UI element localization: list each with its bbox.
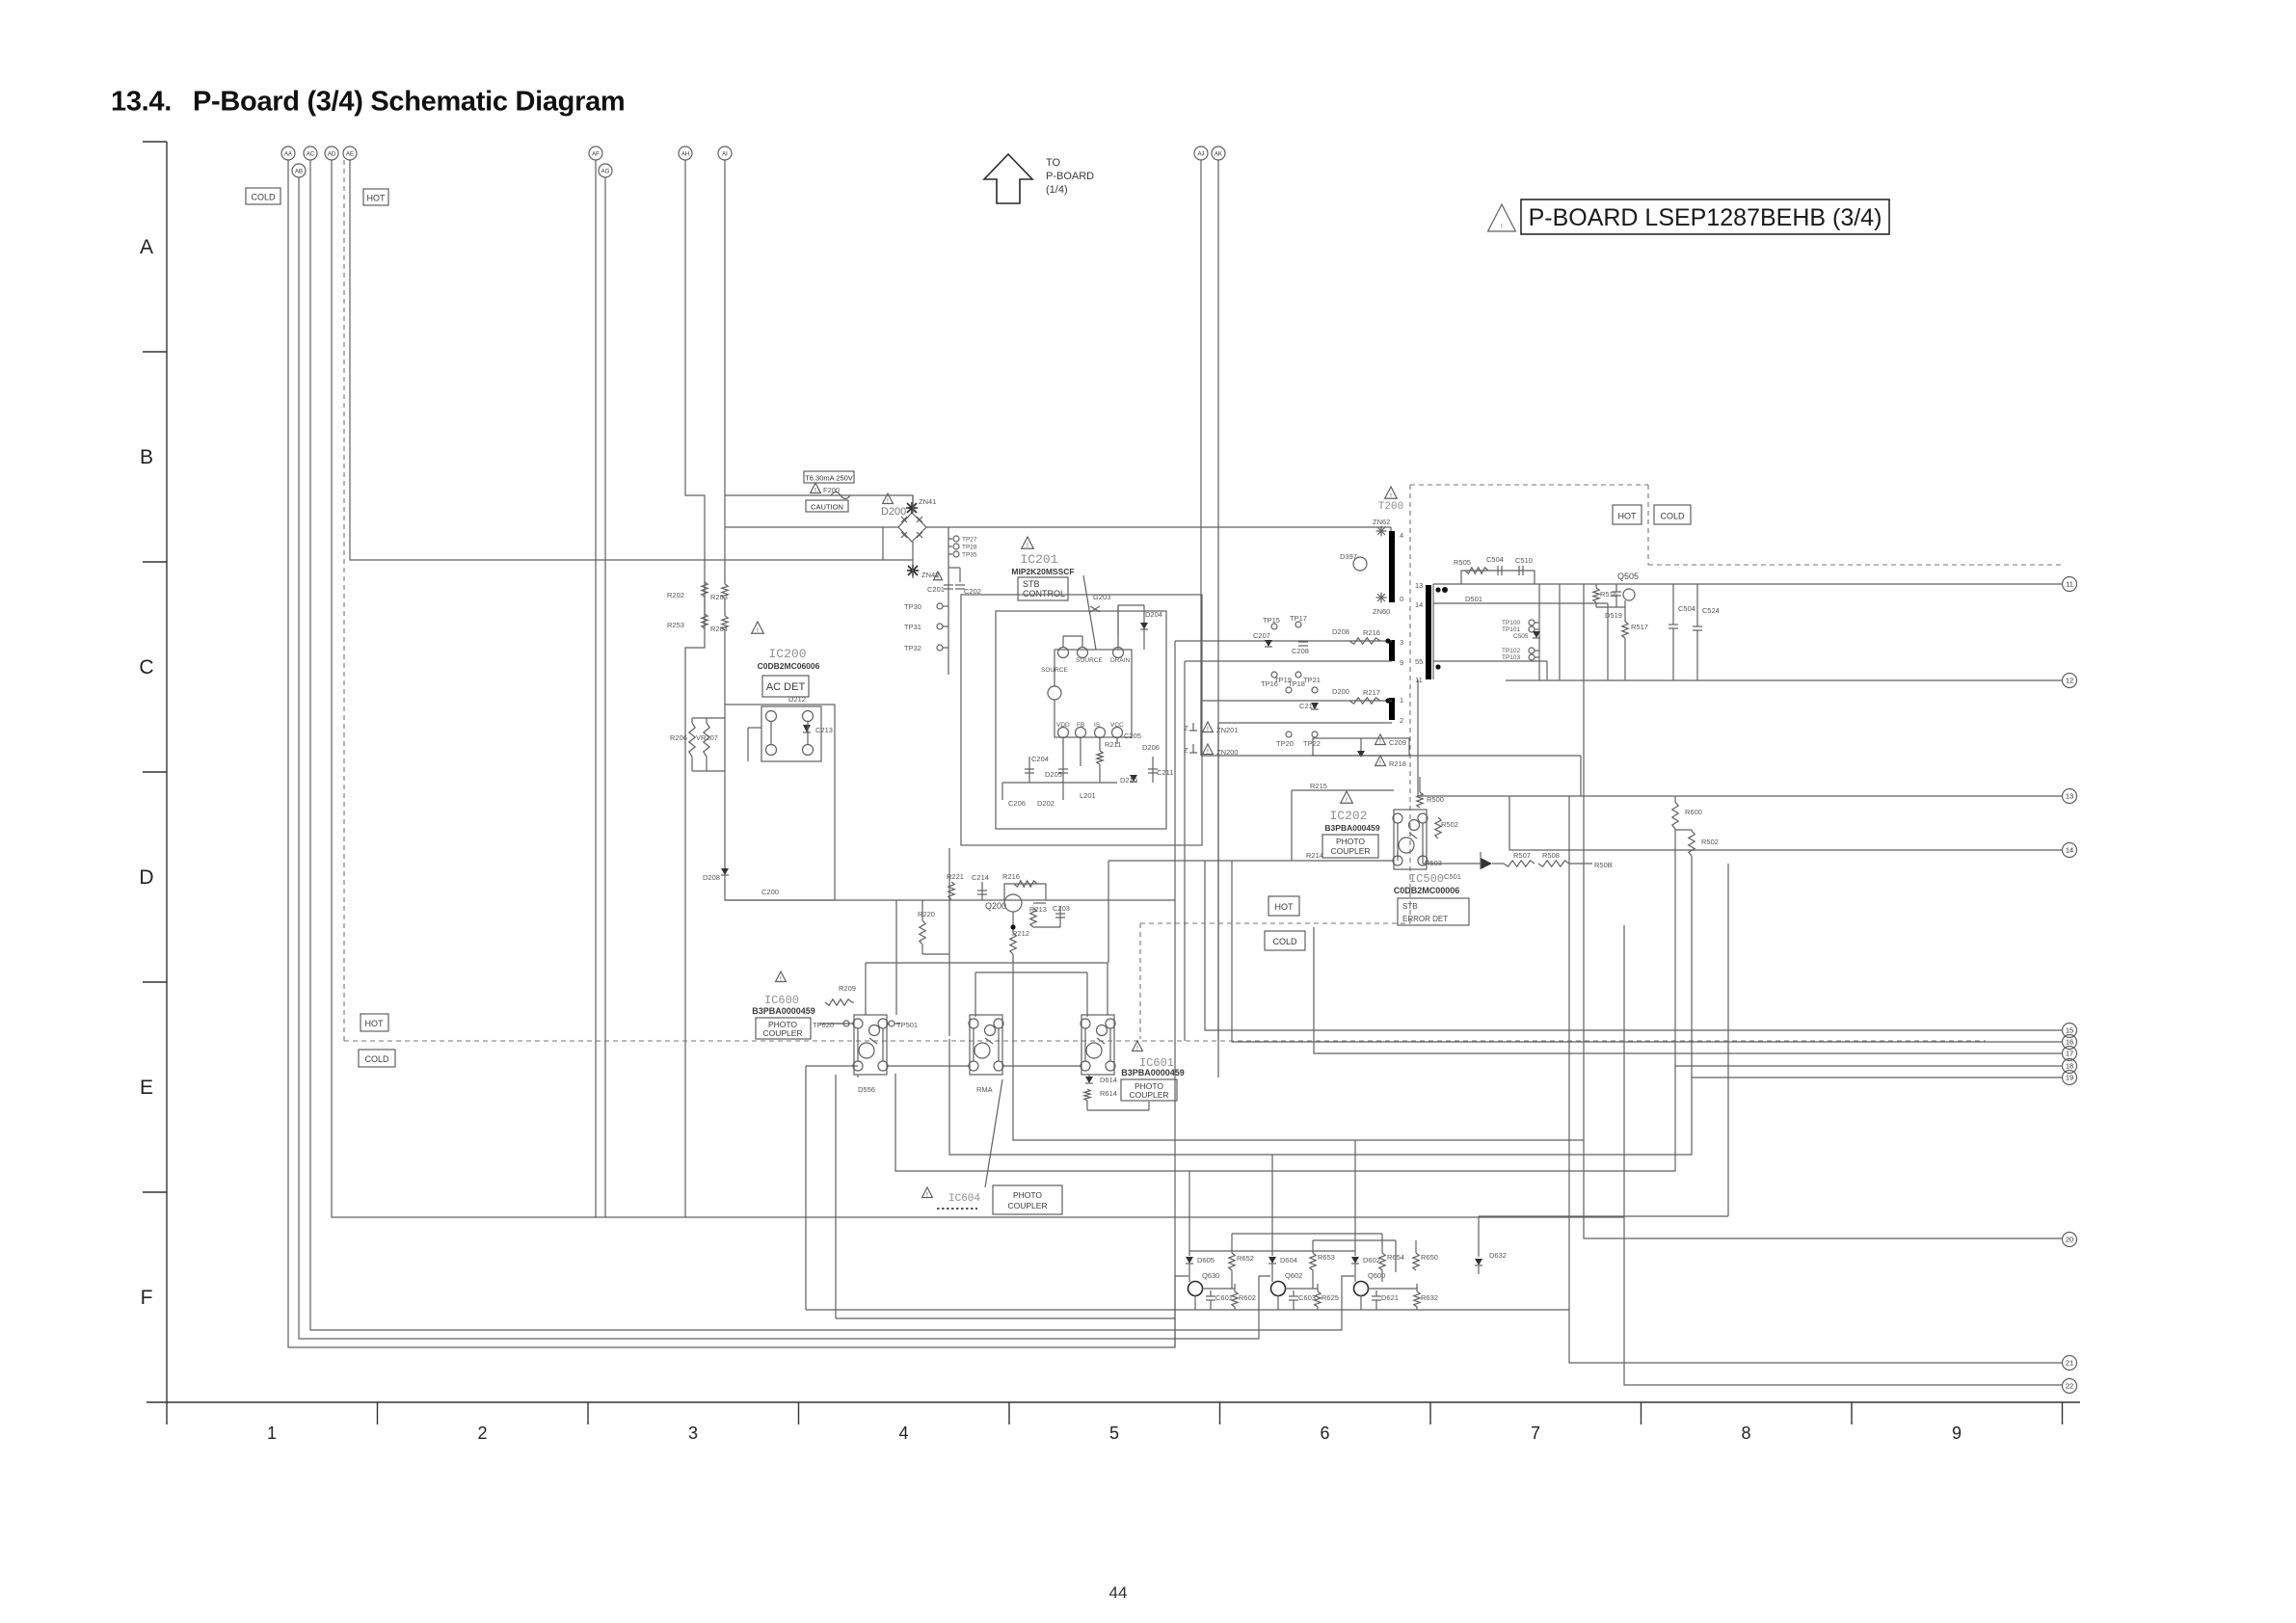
svg-text:HOT: HOT <box>367 194 387 203</box>
svg-text:IC200: IC200 <box>768 647 806 661</box>
svg-text:T6.30mA 250V: T6.30mA 250V <box>805 474 853 483</box>
svg-text:R50B: R50B <box>1594 861 1613 869</box>
svg-text:HOT: HOT <box>1275 902 1295 912</box>
svg-text:9: 9 <box>1952 1423 1962 1443</box>
svg-text:COUPLER: COUPLER <box>1007 1201 1047 1211</box>
svg-text:TP15: TP15 <box>1263 616 1280 625</box>
svg-text:TP31: TP31 <box>904 623 921 631</box>
svg-text:D202: D202 <box>1037 799 1055 808</box>
svg-text:AJ: AJ <box>1197 151 1204 157</box>
svg-text:TP620: TP620 <box>813 1021 834 1029</box>
svg-text:R220: R220 <box>918 910 935 918</box>
svg-text:HOT: HOT <box>1618 512 1638 521</box>
svg-text:C207: C207 <box>1253 631 1270 640</box>
svg-text:B: B <box>140 446 153 468</box>
svg-text:R625: R625 <box>1322 1293 1339 1302</box>
svg-text:55: 55 <box>1415 657 1423 666</box>
svg-text:17: 17 <box>2066 1050 2073 1058</box>
svg-text:TP17: TP17 <box>1290 614 1307 623</box>
svg-text:6: 6 <box>1320 1423 1329 1443</box>
svg-text:TP28: TP28 <box>962 545 977 551</box>
svg-text:AB: AB <box>295 169 303 174</box>
svg-text:C205: C205 <box>1124 732 1141 740</box>
svg-text:C214: C214 <box>972 873 989 882</box>
svg-text:(1/4): (1/4) <box>1046 184 1068 196</box>
svg-text:2: 2 <box>477 1423 487 1443</box>
svg-text:TP19: TP19 <box>1274 676 1292 684</box>
svg-text:E: E <box>140 1077 153 1099</box>
svg-text:HOT: HOT <box>365 1019 385 1028</box>
svg-text:R214: R214 <box>1306 851 1323 860</box>
svg-text:R502: R502 <box>1441 820 1458 829</box>
svg-text:P-BOARD LSEP1287BEHB (3/4): P-BOARD LSEP1287BEHB (3/4) <box>1529 204 1882 231</box>
svg-text:3: 3 <box>688 1423 698 1443</box>
svg-text:R502: R502 <box>1701 838 1719 846</box>
svg-text:IC604: IC604 <box>948 1193 980 1205</box>
svg-text:R516: R516 <box>1600 590 1617 599</box>
svg-text:STB: STB <box>1023 579 1040 589</box>
svg-text:C601: C601 <box>1215 1293 1233 1302</box>
svg-text:13: 13 <box>2066 792 2073 801</box>
svg-text:AC: AC <box>307 151 315 157</box>
svg-text:ZN41: ZN41 <box>919 497 936 506</box>
svg-text:VDD: VDD <box>1056 722 1070 729</box>
svg-text:44: 44 <box>1109 1583 1128 1602</box>
svg-text:R216: R216 <box>1002 872 1020 881</box>
svg-text:Q505: Q505 <box>1617 572 1639 581</box>
svg-text:B3PBA0000459: B3PBA0000459 <box>752 1006 815 1016</box>
svg-text:11: 11 <box>1415 676 1423 684</box>
svg-text:STB: STB <box>1402 902 1418 911</box>
svg-text:D621: D621 <box>1381 1293 1399 1302</box>
svg-text:R517: R517 <box>1631 623 1648 631</box>
svg-text:3: 3 <box>1400 638 1403 647</box>
svg-text:TP102: TP102 <box>1502 648 1521 654</box>
svg-text:R653: R653 <box>1318 1253 1335 1262</box>
svg-text:Q602: Q602 <box>1285 1271 1302 1280</box>
svg-text:R632: R632 <box>1421 1293 1438 1302</box>
svg-text:R614: R614 <box>1100 1089 1117 1098</box>
svg-text:D: D <box>139 866 153 889</box>
svg-text:14: 14 <box>1415 600 1423 609</box>
svg-text:R650: R650 <box>1421 1253 1438 1262</box>
svg-text:1: 1 <box>267 1423 277 1443</box>
svg-text:9: 9 <box>1400 658 1403 667</box>
svg-text:VR207: VR207 <box>696 733 718 742</box>
svg-text:R211: R211 <box>1105 740 1121 749</box>
svg-text:R500: R500 <box>1427 795 1444 804</box>
svg-text:C0DB2MC00006: C0DB2MC00006 <box>1394 886 1460 895</box>
svg-text:D200: D200 <box>1332 687 1349 696</box>
svg-text:TP103: TP103 <box>1502 654 1521 661</box>
svg-text:R253: R253 <box>667 621 684 629</box>
svg-text:13.4.: 13.4. <box>111 87 172 118</box>
svg-text:20: 20 <box>2066 1236 2073 1244</box>
svg-text:C211: C211 <box>1157 768 1173 777</box>
svg-text:COLD: COLD <box>1272 937 1297 946</box>
svg-text:TP30: TP30 <box>904 602 921 611</box>
svg-text:F200: F200 <box>823 486 840 494</box>
svg-text:C213: C213 <box>815 726 833 734</box>
svg-text:C524: C524 <box>1702 606 1720 615</box>
svg-text:VCC: VCC <box>1110 722 1124 729</box>
svg-text:R602: R602 <box>1239 1293 1256 1302</box>
svg-text:R209: R209 <box>839 984 856 993</box>
svg-text:D208: D208 <box>703 873 720 882</box>
svg-text:IC600: IC600 <box>764 994 799 1007</box>
svg-text:MIP2K20MSSCF: MIP2K20MSSCF <box>1011 567 1074 576</box>
svg-text:T200: T200 <box>1378 501 1403 513</box>
svg-text:16: 16 <box>2066 1038 2073 1047</box>
svg-text:COUPLER: COUPLER <box>1330 846 1370 856</box>
svg-text:2: 2 <box>1400 716 1403 725</box>
svg-text:TP35: TP35 <box>962 552 977 559</box>
svg-text:D604: D604 <box>1280 1256 1297 1264</box>
svg-text:IC202: IC202 <box>1329 809 1367 823</box>
svg-text:ZN60: ZN60 <box>1373 607 1390 616</box>
svg-text:R600: R600 <box>1685 808 1702 816</box>
svg-text:D397: D397 <box>1340 552 1357 561</box>
svg-text:D602: D602 <box>1363 1256 1380 1264</box>
svg-text:COLD: COLD <box>1660 512 1685 521</box>
svg-text:R505: R505 <box>1454 558 1471 567</box>
svg-text:D205: D205 <box>1045 770 1062 779</box>
svg-text:AK: AK <box>1215 151 1222 157</box>
svg-text:R218: R218 <box>1389 759 1406 768</box>
svg-text:14: 14 <box>2066 846 2073 855</box>
svg-text:C209: C209 <box>1389 738 1406 747</box>
svg-text:C203: C203 <box>1053 904 1070 913</box>
svg-text:TO: TO <box>1046 157 1061 169</box>
svg-text:4: 4 <box>898 1423 908 1443</box>
svg-text:C510: C510 <box>1515 556 1533 565</box>
svg-text:19: 19 <box>2066 1074 2073 1082</box>
svg-text:SOURCE: SOURCE <box>1076 657 1103 664</box>
svg-text:A: A <box>140 236 153 258</box>
svg-text:D614: D614 <box>1100 1076 1117 1084</box>
svg-text:RMA: RMA <box>976 1085 993 1094</box>
svg-text:R206: R206 <box>670 733 687 742</box>
svg-text:D208: D208 <box>1332 627 1349 636</box>
svg-text:5: 5 <box>1109 1423 1119 1443</box>
svg-text:12: 12 <box>2066 677 2073 685</box>
svg-text:R217: R217 <box>1363 688 1380 697</box>
svg-text:R508: R508 <box>1542 851 1560 860</box>
svg-text:AC DET: AC DET <box>766 681 806 693</box>
svg-text:PHOTO: PHOTO <box>1336 837 1365 846</box>
svg-text:AA: AA <box>284 151 292 157</box>
svg-text:D519: D519 <box>1605 611 1622 620</box>
svg-text:DRAIN: DRAIN <box>1110 657 1131 664</box>
svg-text:R216: R216 <box>1363 628 1380 637</box>
svg-text:C0DB2MC06006: C0DB2MC06006 <box>758 661 820 671</box>
svg-text:F: F <box>141 1287 153 1309</box>
svg-text:PHOTO: PHOTO <box>1013 1190 1042 1200</box>
svg-text:13: 13 <box>1415 581 1423 590</box>
svg-text:!: ! <box>1501 225 1503 230</box>
svg-text:TP100: TP100 <box>1502 620 1521 626</box>
svg-text:AH: AH <box>681 151 689 157</box>
svg-text:Q630: Q630 <box>1202 1271 1219 1280</box>
svg-text:TP22: TP22 <box>1303 739 1321 748</box>
svg-text:C206: C206 <box>1008 799 1026 808</box>
svg-text:Q200: Q200 <box>985 901 1006 911</box>
svg-text:AF: AF <box>592 151 600 157</box>
svg-text:C603: C603 <box>1298 1293 1316 1302</box>
svg-text:0: 0 <box>1400 595 1403 603</box>
svg-text:15: 15 <box>2066 1026 2073 1035</box>
svg-text:ZN201: ZN201 <box>1216 726 1239 734</box>
svg-text:C208: C208 <box>1292 647 1309 655</box>
svg-text:D556: D556 <box>858 1085 875 1094</box>
svg-text:D632: D632 <box>1489 1251 1507 1260</box>
svg-text:R507: R507 <box>1513 851 1531 860</box>
svg-text:AG: AG <box>601 169 610 174</box>
svg-text:C505: C505 <box>1513 633 1529 640</box>
svg-text:AE: AE <box>346 151 354 157</box>
svg-text:ERROR DET: ERROR DET <box>1402 915 1448 923</box>
svg-text:P-Board (3/4) Schematic Diagra: P-Board (3/4) Schematic Diagram <box>193 87 625 118</box>
svg-text:TP27: TP27 <box>962 537 977 544</box>
svg-text:4: 4 <box>1400 531 1403 540</box>
svg-text:D605: D605 <box>1197 1256 1215 1264</box>
svg-text:L201: L201 <box>1080 791 1096 800</box>
svg-text:11: 11 <box>2066 580 2073 589</box>
svg-text:TP101: TP101 <box>1502 626 1521 633</box>
svg-text:SOURCE: SOURCE <box>1041 667 1068 674</box>
svg-text:18: 18 <box>2066 1062 2073 1071</box>
svg-text:C: C <box>139 656 153 678</box>
svg-text:COUPLER: COUPLER <box>762 1028 802 1038</box>
svg-text:C201: C201 <box>927 585 945 594</box>
svg-text:TP21: TP21 <box>1303 676 1321 684</box>
svg-text:8: 8 <box>1741 1423 1750 1443</box>
svg-text:C204: C204 <box>1031 755 1049 763</box>
svg-text:TP501: TP501 <box>896 1021 918 1029</box>
svg-text:COLD: COLD <box>251 193 276 202</box>
svg-text:G203: G203 <box>1093 593 1110 601</box>
svg-text:CAUTION: CAUTION <box>811 503 843 512</box>
svg-text:AI: AI <box>722 151 728 157</box>
svg-text:C504: C504 <box>1678 604 1695 613</box>
svg-text:C504: C504 <box>1486 555 1504 564</box>
svg-text:IC500: IC500 <box>1409 872 1444 886</box>
svg-text:D206: D206 <box>1142 743 1160 752</box>
svg-text:TP32: TP32 <box>904 644 921 652</box>
svg-text:D501: D501 <box>1465 595 1482 603</box>
svg-text:FB: FB <box>1077 722 1084 729</box>
svg-text:Q600: Q600 <box>1368 1271 1385 1280</box>
svg-text:R652: R652 <box>1237 1254 1254 1263</box>
svg-text:COLD: COLD <box>364 1054 389 1064</box>
svg-text:21: 21 <box>2066 1359 2073 1368</box>
svg-text:P-BOARD: P-BOARD <box>1046 171 1094 182</box>
svg-text:AD: AD <box>328 151 336 157</box>
svg-text:1: 1 <box>1400 696 1403 705</box>
svg-text:C501: C501 <box>1444 872 1461 881</box>
svg-text:D200: D200 <box>881 506 906 518</box>
svg-text:IC201: IC201 <box>1020 552 1057 567</box>
svg-text:TP20: TP20 <box>1276 739 1294 748</box>
svg-text:CONTROL: CONTROL <box>1023 589 1065 599</box>
svg-text:22: 22 <box>2066 1382 2073 1391</box>
svg-text:COUPLER: COUPLER <box>1129 1090 1168 1100</box>
svg-text:R215: R215 <box>1310 782 1327 790</box>
svg-text:C200: C200 <box>761 888 779 896</box>
svg-text:IS: IS <box>1094 722 1101 729</box>
svg-text:D212: D212 <box>788 695 806 704</box>
svg-text:7: 7 <box>1531 1423 1540 1443</box>
svg-text:B3PBA000459: B3PBA000459 <box>1324 823 1379 833</box>
svg-text:R202: R202 <box>667 591 684 599</box>
svg-text:ZN62: ZN62 <box>1373 518 1390 526</box>
